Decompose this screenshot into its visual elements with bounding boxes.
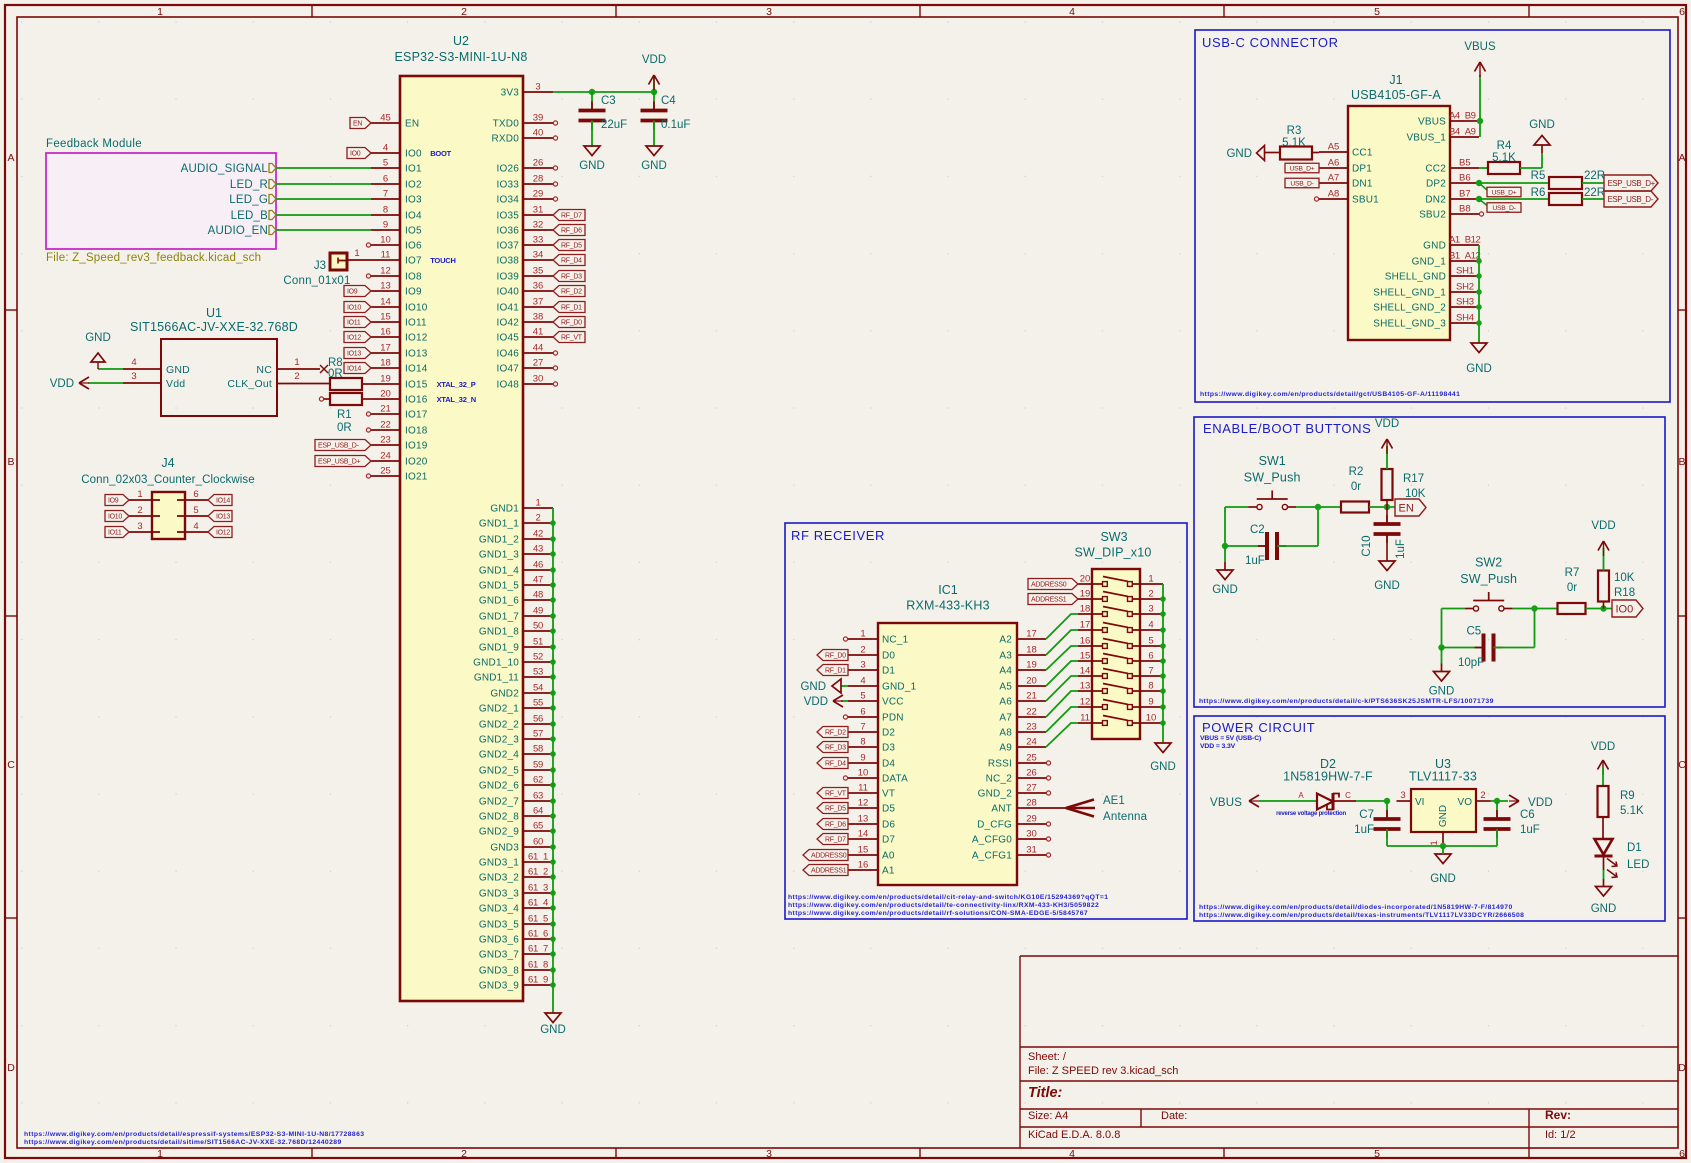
svg-text:https://www.digikey.com/en/pro: https://www.digikey.com/en/products/deta… [1199,912,1524,919]
svg-text:IO26: IO26 [497,164,520,175]
svg-text:R4: R4 [1497,140,1512,152]
svg-text:45: 45 [380,113,391,124]
svg-text:64: 64 [533,806,543,817]
svg-text:GND2_4: GND2_4 [479,750,519,761]
svg-text:A7: A7 [1328,173,1340,184]
svg-text:IO36: IO36 [497,226,520,237]
svg-text:10: 10 [380,235,391,246]
svg-text:LED_B: LED_B [231,210,269,222]
svg-text:C4: C4 [661,95,676,107]
svg-text:C2: C2 [1250,524,1265,536]
svg-text:D1: D1 [882,666,895,677]
svg-text:22: 22 [380,420,391,431]
svg-text:ESP_USB_D-: ESP_USB_D- [1608,195,1654,204]
svg-text:GND: GND [1466,363,1492,375]
svg-text:22R: 22R [1584,187,1605,199]
svg-text:R9: R9 [1620,790,1635,802]
svg-text:RF_D0: RF_D0 [561,320,582,327]
svg-text:49: 49 [533,606,543,617]
svg-text:SH3: SH3 [1456,297,1474,308]
svg-text:6: 6 [1679,1148,1685,1160]
svg-text:IO18: IO18 [405,426,428,437]
svg-text:GND: GND [1429,686,1455,698]
svg-text:57: 57 [533,729,543,740]
svg-text:12: 12 [1080,697,1091,708]
svg-text:2: 2 [294,371,299,382]
svg-text:IO14: IO14 [347,366,361,373]
svg-text:GND2_7: GND2_7 [479,797,519,808]
svg-text:15: 15 [380,312,391,323]
svg-text:1: 1 [536,498,541,509]
svg-text:https://www.digikey.com/en/pro: https://www.digikey.com/en/products/deta… [788,910,1088,917]
svg-text:CLK_Out: CLK_Out [227,378,272,390]
svg-text:28: 28 [1026,798,1037,809]
svg-text:SIT1566AC-JV-XXE-32.768D: SIT1566AC-JV-XXE-32.768D [130,320,298,334]
svg-text:22R: 22R [1584,170,1605,182]
svg-text:IO3: IO3 [405,195,422,206]
svg-text:EN: EN [405,119,419,130]
svg-text:Sheet: /: Sheet: / [1028,1051,1067,1063]
svg-text:13: 13 [1080,681,1091,692]
svg-text:4: 4 [860,676,865,687]
svg-text:SH4: SH4 [1456,313,1474,324]
svg-text:13: 13 [858,814,869,825]
svg-text:ESP_USB_D-: ESP_USB_D- [318,443,360,450]
svg-text:IO33: IO33 [497,180,520,191]
svg-text:0r: 0r [1567,582,1577,594]
svg-text:IO19: IO19 [405,441,428,452]
svg-text:16: 16 [380,327,391,338]
svg-text:60: 60 [533,837,543,848]
svg-text:27: 27 [533,358,544,369]
svg-text:D2: D2 [882,728,895,739]
svg-text:IO46: IO46 [497,349,520,360]
svg-text:3: 3 [1148,604,1153,615]
svg-text:SHELL_GND_1: SHELL_GND_1 [1373,288,1446,299]
svg-text:GND1_3: GND1_3 [479,550,519,561]
svg-text:VI: VI [1415,797,1424,808]
svg-text:5: 5 [1374,6,1380,18]
svg-text:R2: R2 [1349,466,1364,478]
svg-text:VDD: VDD [804,696,828,708]
svg-text:11: 11 [1080,713,1090,724]
svg-text:39: 39 [533,113,544,124]
svg-text:8: 8 [860,737,865,748]
svg-text:52: 52 [533,652,543,663]
svg-text:RF_D2: RF_D2 [825,730,846,737]
svg-text:File: Z SPEED rev 3.kicad_sch: File: Z SPEED rev 3.kicad_sch [1028,1065,1178,1077]
svg-text:1: 1 [354,248,359,259]
svg-text:5: 5 [860,691,865,702]
svg-text:GND: GND [540,1024,566,1036]
svg-text:30: 30 [533,374,544,385]
svg-text:47: 47 [533,575,543,586]
svg-text:J3: J3 [314,260,326,272]
svg-text:IO10: IO10 [108,514,122,521]
svg-text:RF_VT: RF_VT [825,791,847,798]
svg-text:GND_1: GND_1 [1412,257,1447,268]
svg-text:37: 37 [533,297,544,308]
svg-text:USB-C CONNECTOR: USB-C CONNECTOR [1202,35,1339,50]
svg-text:61_6: 61_6 [528,929,548,940]
svg-text:3V3: 3V3 [501,88,520,99]
svg-text:26: 26 [533,158,544,169]
svg-text:RSSI: RSSI [988,759,1012,770]
svg-text:RF_D1: RF_D1 [825,668,846,675]
svg-text:VBUS_1: VBUS_1 [1406,133,1446,144]
svg-text:53: 53 [533,667,543,678]
svg-text:Vdd: Vdd [166,378,185,390]
svg-text:0r: 0r [1351,481,1361,493]
svg-text:54: 54 [533,683,543,694]
svg-text:43: 43 [533,544,543,555]
svg-text:ESP_USB_D+: ESP_USB_D+ [1608,179,1656,188]
svg-text:D: D [1678,1062,1686,1074]
svg-text:IO12: IO12 [216,530,230,537]
svg-text:NC_1: NC_1 [882,635,909,646]
svg-text:Feedback Module: Feedback Module [46,138,142,150]
svg-text:1: 1 [294,357,299,368]
svg-text:SW1: SW1 [1259,454,1286,468]
svg-text:RF_D4: RF_D4 [561,258,582,265]
svg-text:IO7: IO7 [405,256,422,267]
svg-text:VDD: VDD [1375,418,1399,430]
svg-text:IO0: IO0 [1616,603,1634,615]
svg-text:DATA: DATA [882,774,908,785]
svg-text:GND: GND [1423,241,1446,252]
svg-text:GND: GND [85,332,111,344]
svg-text:GND3_9: GND3_9 [479,981,519,992]
svg-text:R3: R3 [1287,125,1302,137]
svg-text:GND2_8: GND2_8 [479,812,519,823]
svg-text:GND2_9: GND2_9 [479,827,519,838]
svg-text:1: 1 [137,489,142,500]
svg-text:TOUCH: TOUCH [430,256,456,265]
svg-text:GND: GND [1212,584,1238,596]
svg-text:GND_1: GND_1 [882,682,917,693]
svg-text:IO47: IO47 [497,364,520,375]
svg-text:Conn_01x01: Conn_01x01 [283,275,350,287]
svg-text:IO15: IO15 [405,380,428,391]
svg-text:GND: GND [1150,761,1176,773]
svg-text:5.1K: 5.1K [1282,137,1306,149]
svg-text:2: 2 [860,645,865,656]
svg-text:59: 59 [533,760,543,771]
svg-text:1: 1 [157,1148,163,1160]
svg-text:56: 56 [533,714,543,725]
svg-text:R18: R18 [1614,587,1635,599]
svg-text:11: 11 [858,783,868,794]
svg-text:RF_D3: RF_D3 [825,745,846,752]
svg-text:GND_2: GND_2 [978,789,1013,800]
svg-text:XTAL_32_N: XTAL_32_N [437,395,476,404]
svg-text:IO34: IO34 [497,195,520,206]
svg-text:17: 17 [1026,629,1037,640]
svg-text:31: 31 [1026,845,1037,856]
svg-text:A8: A8 [1328,189,1340,200]
svg-text:NC: NC [256,364,272,376]
svg-text:2: 2 [1148,589,1153,600]
svg-text:61_3: 61_3 [528,883,548,894]
svg-text:IO39: IO39 [497,272,520,283]
svg-text:22: 22 [1026,707,1037,718]
svg-text:VDD: VDD [1591,520,1615,532]
svg-text:RF_VT: RF_VT [561,335,583,342]
svg-text:VO: VO [1458,797,1473,808]
svg-text:22uF: 22uF [601,119,627,131]
svg-text:GND2_3: GND2_3 [479,735,519,746]
svg-text:GND: GND [800,681,826,693]
svg-text:LED_R: LED_R [230,179,268,191]
svg-text:IO16: IO16 [405,395,428,406]
svg-text:IO38: IO38 [497,256,520,267]
svg-text:D5: D5 [882,804,895,815]
svg-text:4: 4 [383,143,388,154]
svg-text:RXM-433-KH3: RXM-433-KH3 [906,599,989,613]
svg-text:B7: B7 [1459,189,1471,200]
svg-text:1: 1 [157,6,163,18]
svg-text:IO5: IO5 [405,226,422,237]
svg-text:61_2: 61_2 [528,867,548,878]
svg-text:D_CFG: D_CFG [977,820,1012,831]
svg-text:USB_D-: USB_D- [1492,205,1515,212]
svg-text:AE1: AE1 [1103,795,1125,807]
svg-text:IO35: IO35 [497,211,520,222]
svg-text:10K: 10K [1614,572,1635,584]
svg-text:1: 1 [1148,574,1153,585]
svg-text:VBUS: VBUS [1418,117,1446,128]
svg-text:IO8: IO8 [405,272,422,283]
svg-text:ADDRESS0: ADDRESS0 [1031,582,1067,589]
svg-text:VDD: VDD [1528,797,1553,809]
svg-text:RF RECEIVER: RF RECEIVER [791,528,885,543]
svg-text:VDD = 3.3V: VDD = 3.3V [1200,743,1236,750]
svg-text:VBUS: VBUS [1210,797,1242,809]
svg-text:GND3_1: GND3_1 [479,858,519,869]
svg-text:R7: R7 [1565,567,1580,579]
svg-text:TLV1117-33: TLV1117-33 [1409,770,1477,784]
svg-text:A1: A1 [882,866,895,877]
svg-text:1: 1 [1429,840,1440,845]
svg-text:IO0: IO0 [405,149,422,160]
svg-text:17: 17 [380,343,391,354]
svg-text:GND: GND [1226,148,1252,160]
svg-text:A: A [1298,791,1304,800]
svg-text:44: 44 [533,343,544,354]
svg-text:62: 62 [533,775,543,786]
svg-text:B4_A9: B4_A9 [1449,127,1476,138]
svg-text:58: 58 [533,744,543,755]
svg-text:27: 27 [1026,783,1037,794]
svg-text:Conn_02x03_Counter_Clockwise: Conn_02x03_Counter_Clockwise [81,474,255,486]
svg-text:RF_D7: RF_D7 [561,213,582,220]
svg-text:RF_D5: RF_D5 [561,243,582,250]
svg-text:GND: GND [1430,873,1456,885]
svg-text:61_4: 61_4 [528,898,548,909]
svg-text:LED: LED [1627,859,1649,871]
svg-text:19: 19 [380,374,391,385]
svg-text:A: A [7,152,14,164]
svg-text:9: 9 [1148,697,1153,708]
svg-text:POWER CIRCUIT: POWER CIRCUIT [1202,720,1315,735]
svg-text:VBUS = 5V (USB-C): VBUS = 5V (USB-C) [1200,735,1261,742]
svg-text:IC1: IC1 [938,583,958,597]
svg-text:24: 24 [380,451,391,462]
svg-text:GND3_5: GND3_5 [479,920,519,931]
svg-text:AUDIO_SIGNAL: AUDIO_SIGNAL [181,163,269,175]
svg-text:36: 36 [533,281,544,292]
svg-text:8: 8 [1148,681,1153,692]
svg-text:IO13: IO13 [216,514,230,521]
svg-text:J1: J1 [1389,73,1402,87]
svg-text:2: 2 [461,6,467,18]
svg-text:55: 55 [533,698,543,709]
svg-text:GND1_11: GND1_11 [474,673,519,684]
svg-text:EN: EN [353,121,362,128]
svg-text:1uF: 1uF [1520,824,1540,836]
svg-text:4: 4 [1069,6,1075,18]
svg-text:https://www.digikey.com/en/pro: https://www.digikey.com/en/products/deta… [24,1131,364,1138]
svg-text:IO10: IO10 [405,303,428,314]
svg-text:A_CFG0: A_CFG0 [972,835,1012,846]
svg-text:C: C [7,759,15,771]
svg-text:GND1_7: GND1_7 [479,612,519,623]
svg-text:R17: R17 [1403,473,1424,485]
svg-text:4: 4 [193,521,198,532]
svg-text:1uF: 1uF [1395,539,1407,559]
svg-text:2: 2 [536,513,541,524]
svg-text:CC1: CC1 [1352,148,1373,159]
svg-text:21: 21 [1026,691,1037,702]
svg-text:GND2_2: GND2_2 [479,720,519,731]
svg-text:25: 25 [380,466,391,477]
svg-text:5.1K: 5.1K [1492,152,1516,164]
svg-text:U1: U1 [206,306,222,320]
svg-text:Title:: Title: [1028,1085,1063,1101]
svg-text:20: 20 [380,389,391,400]
svg-text:IO11: IO11 [108,530,122,537]
svg-text:17: 17 [1080,620,1091,631]
svg-text:IO12: IO12 [347,335,361,342]
svg-text:EN: EN [1399,502,1414,514]
svg-text:C7: C7 [1359,809,1374,821]
svg-text:5: 5 [1148,636,1153,647]
svg-text:12: 12 [380,266,391,277]
svg-text:RF_D5: RF_D5 [825,806,846,813]
svg-text:https://www.digikey.com/en/pro: https://www.digikey.com/en/products/deta… [1199,698,1494,705]
svg-text:XTAL_32_P: XTAL_32_P [437,380,476,389]
svg-text:19: 19 [1080,589,1091,600]
svg-text:GND: GND [1591,903,1617,915]
svg-text:SHELL_GND_2: SHELL_GND_2 [1373,303,1446,314]
svg-text:J4: J4 [161,456,174,470]
svg-text:GND: GND [1529,119,1555,131]
svg-text:1uF: 1uF [1245,555,1265,567]
svg-text:IO17: IO17 [405,410,428,421]
svg-text:2: 2 [1480,790,1485,801]
svg-text:B5: B5 [1459,158,1471,169]
svg-text:SW3: SW3 [1100,530,1127,544]
svg-text:A1_B12: A1_B12 [1449,235,1481,246]
svg-text:IO2: IO2 [405,180,422,191]
svg-text:8: 8 [383,205,388,216]
svg-text:https://www.digikey.com/en/pro: https://www.digikey.com/en/products/deta… [788,902,1099,909]
svg-text:IO6: IO6 [405,241,422,252]
svg-text:61_9: 61_9 [528,975,548,986]
svg-text:B6: B6 [1459,173,1471,184]
svg-text:0R: 0R [328,368,343,380]
svg-text:SW2: SW2 [1475,556,1502,570]
svg-text:RXD0: RXD0 [492,134,520,145]
svg-text:IO11: IO11 [405,318,427,329]
svg-text:USB_D+: USB_D+ [1492,189,1517,196]
svg-text:C: C [1345,791,1351,800]
svg-text:R1: R1 [337,409,352,421]
svg-text:GND2_1: GND2_1 [479,704,519,715]
svg-text:3: 3 [860,660,865,671]
svg-text:63: 63 [533,791,543,802]
svg-text:12: 12 [858,798,869,809]
svg-text:GND1_5: GND1_5 [479,581,519,592]
svg-text:AUDIO_EN: AUDIO_EN [208,225,268,237]
svg-text:A5: A5 [1328,142,1340,153]
svg-text:Antenna: Antenna [1103,811,1148,823]
svg-text:D: D [7,1062,15,1074]
svg-text:CC2: CC2 [1425,164,1446,175]
svg-text:11: 11 [381,250,391,261]
svg-text:13: 13 [380,281,391,292]
svg-text:15: 15 [858,845,869,856]
svg-text:GND3_8: GND3_8 [479,966,519,977]
svg-text:20: 20 [1026,676,1037,687]
svg-text:14: 14 [380,297,391,308]
svg-text:VDD: VDD [50,378,74,390]
svg-text:26: 26 [1026,768,1037,779]
svg-text:Id: 1/2: Id: 1/2 [1545,1129,1576,1141]
svg-text:B: B [7,456,14,468]
svg-text:41: 41 [533,327,544,338]
svg-text:DP1: DP1 [1352,164,1372,175]
svg-text:A2: A2 [999,635,1012,646]
svg-text:GND: GND [1374,580,1400,592]
svg-text:7: 7 [860,722,865,733]
svg-text:B: B [1678,456,1685,468]
svg-text:LED_G: LED_G [229,194,268,206]
svg-text:IO40: IO40 [497,287,520,298]
svg-text:34: 34 [533,250,544,261]
svg-text:VT: VT [882,789,895,800]
svg-text:61_1: 61_1 [528,852,548,863]
svg-text:18: 18 [1026,645,1037,656]
svg-text:61_8: 61_8 [528,960,548,971]
svg-text:16: 16 [858,860,869,871]
svg-text:RF_D1: RF_D1 [561,305,582,312]
svg-text:https://www.digikey.com/en/pro: https://www.digikey.com/en/products/deta… [24,1139,342,1146]
svg-text:DP2: DP2 [1426,179,1446,190]
svg-text:https://www.digikey.com/en/pro: https://www.digikey.com/en/products/deta… [788,894,1108,901]
svg-text:42: 42 [533,529,543,540]
svg-text:GND1_4: GND1_4 [479,566,519,577]
svg-text:SBU2: SBU2 [1419,210,1446,221]
svg-text:20: 20 [1080,574,1091,585]
svg-text:3: 3 [766,1148,772,1160]
svg-text:VDD: VDD [1591,741,1615,753]
svg-text:61_5: 61_5 [528,914,548,925]
svg-text:24: 24 [1026,737,1037,748]
svg-text:RF_D2: RF_D2 [561,289,582,296]
svg-text:D0: D0 [882,651,895,662]
svg-text:C10: C10 [1361,535,1373,556]
